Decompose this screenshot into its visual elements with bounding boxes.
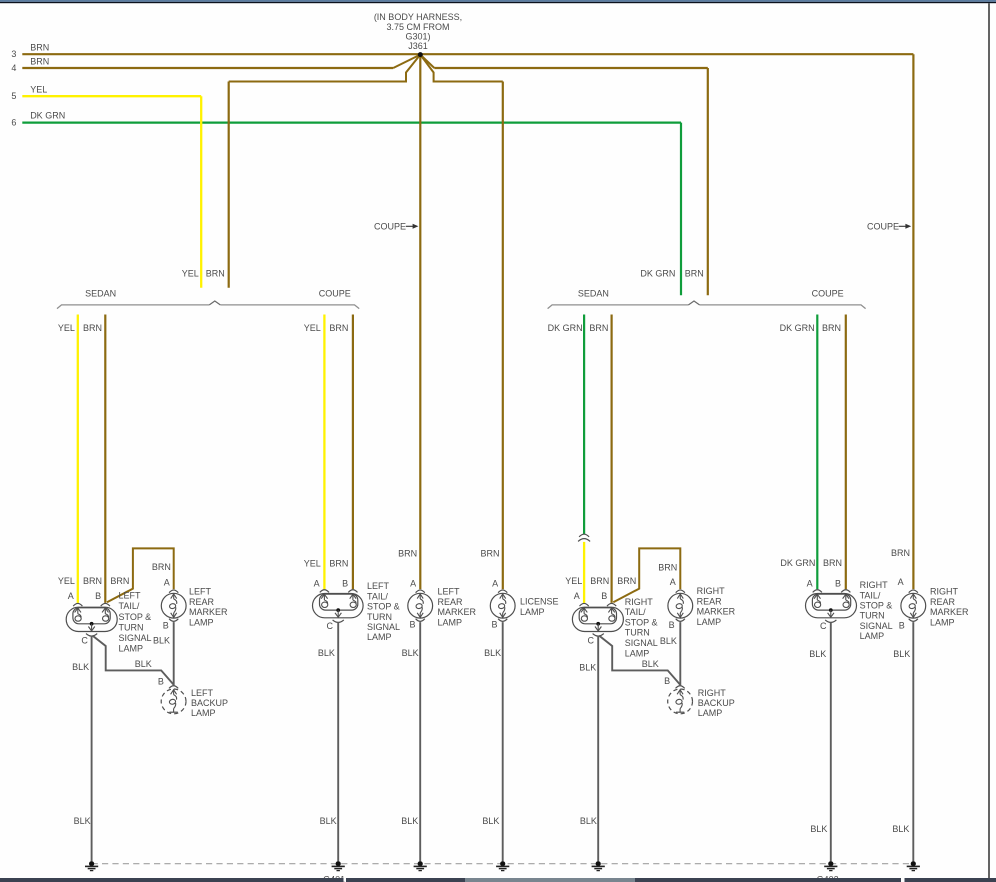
wire BRN circuit 4 diagonal to J361 bbox=[393, 55, 420, 68]
svg-text:BRN: BRN bbox=[30, 57, 49, 67]
svg-text:SIGNAL: SIGNAL bbox=[860, 621, 893, 631]
label BRN at left sedan branch bbox=[110, 576, 129, 586]
svg-text:RIGHT: RIGHT bbox=[697, 586, 726, 596]
svg-text:BLK: BLK bbox=[153, 636, 170, 646]
label YEL left coupe drop bbox=[304, 323, 321, 333]
bulb license lamp bbox=[490, 590, 515, 621]
svg-text:B: B bbox=[491, 620, 497, 630]
label BRN at left coupe marker bbox=[398, 549, 417, 559]
wire BLK right coupe C to ground bbox=[830, 622, 832, 861]
svg-text:BLK: BLK bbox=[401, 816, 418, 826]
wire BRN J361 to right branch bbox=[420, 55, 708, 296]
wire DK GRN right coupe vertical bbox=[816, 315, 818, 590]
label BRN at left coupe lamp bbox=[329, 559, 348, 569]
wire BLK left coupe C to ground bbox=[337, 622, 339, 861]
label BRN left sedan drop bbox=[83, 323, 102, 333]
label YEL left sedan drop bbox=[58, 323, 75, 333]
svg-text:BLK: BLK bbox=[74, 816, 91, 826]
pin number 6 bbox=[11, 118, 16, 128]
svg-text:LEFT: LEFT bbox=[367, 581, 390, 591]
svg-text:LAMP: LAMP bbox=[367, 632, 392, 642]
svg-text:BLK: BLK bbox=[892, 824, 909, 834]
text left coupe tail lamp name bbox=[367, 581, 400, 642]
svg-text:B: B bbox=[664, 676, 670, 686]
svg-text:LAMP: LAMP bbox=[520, 607, 545, 617]
ground right marker bbox=[907, 861, 920, 870]
label BLK right coupe marker bbox=[893, 649, 910, 659]
svg-text:RIGHT: RIGHT bbox=[930, 587, 959, 597]
svg-text:(IN BODY HARNESS,: (IN BODY HARNESS, bbox=[374, 12, 462, 22]
text left coupe marker name bbox=[438, 587, 477, 628]
svg-text:BACKUP: BACKUP bbox=[191, 698, 228, 708]
svg-text:B: B bbox=[601, 591, 607, 601]
wire YEL circuit 5 horizontal bbox=[22, 95, 201, 97]
pin letters right coupe tail/stop/turn lamp bbox=[807, 578, 841, 631]
wire BLK left coupe marker B to ground bbox=[419, 622, 421, 861]
svg-text:TURN: TURN bbox=[119, 622, 144, 632]
svg-text:BRN: BRN bbox=[110, 576, 129, 586]
bulb left coupe rear marker lamp bbox=[408, 590, 433, 621]
ground name G402 bbox=[817, 875, 839, 882]
wire BLK left sedan C to ground bbox=[91, 636, 93, 861]
label BLK license bbox=[484, 648, 501, 658]
wire YEL right sedan vertical bbox=[583, 542, 585, 603]
bulb left backup lamp bbox=[161, 686, 186, 714]
svg-text:YEL: YEL bbox=[58, 576, 75, 586]
text right sedan marker name bbox=[697, 586, 736, 627]
svg-text:SIGNAL: SIGNAL bbox=[367, 622, 400, 632]
label DK GRN right sedan drop bbox=[548, 323, 583, 333]
svg-text:BRN: BRN bbox=[329, 323, 348, 333]
svg-text:COUPE: COUPE bbox=[374, 222, 406, 232]
label BLK bottom left marker bbox=[401, 816, 418, 826]
svg-text:BRN: BRN bbox=[83, 576, 102, 586]
svg-text:LAMP: LAMP bbox=[189, 617, 214, 627]
label YEL above left bracket bbox=[182, 268, 199, 278]
svg-text:MARKER: MARKER bbox=[930, 607, 969, 617]
splice DK GRN to YEL right sedan bbox=[578, 534, 590, 541]
svg-text:DK GRN: DK GRN bbox=[640, 268, 675, 278]
browser top bar bbox=[0, 0, 996, 3]
text right coupe marker name bbox=[930, 587, 969, 628]
svg-text:BLK: BLK bbox=[660, 636, 677, 646]
label BRN at right coupe marker bbox=[891, 548, 910, 558]
wire BRN J361 to left branch bbox=[229, 55, 421, 288]
label YEL at left coupe lamp bbox=[304, 559, 321, 569]
svg-text:YEL: YEL bbox=[30, 84, 47, 94]
label BLK bottom right sedan bbox=[580, 816, 597, 826]
label DK GRN circuit 6 bbox=[30, 111, 65, 121]
label BRN at right coupe lamp bbox=[823, 558, 842, 568]
pin letters right coupe marker bbox=[898, 577, 905, 631]
wire BRN right coupe vertical bbox=[845, 315, 847, 590]
label BLK bottom left sedan bbox=[74, 816, 91, 826]
wire BLK left sedan marker B to backup bbox=[173, 622, 175, 685]
svg-text:A: A bbox=[574, 591, 580, 601]
wire BRN left sedan marker branch bbox=[107, 548, 174, 602]
svg-text:A: A bbox=[670, 577, 676, 587]
ground right sedan bbox=[592, 861, 605, 870]
label BLK right sedan C bbox=[579, 663, 596, 673]
svg-text:RIGHT: RIGHT bbox=[625, 597, 654, 607]
svg-text:B: B bbox=[899, 621, 905, 631]
svg-text:LAMP: LAMP bbox=[930, 617, 955, 627]
ground G401 left sedan bbox=[85, 861, 98, 870]
wire BLK left sedan C branch to backup bbox=[93, 636, 174, 685]
pin letters left sedan marker bbox=[163, 577, 170, 630]
svg-text:SIGNAL: SIGNAL bbox=[625, 638, 658, 648]
svg-text:TURN: TURN bbox=[625, 628, 650, 638]
label BLK left sedan C bbox=[72, 662, 89, 672]
svg-text:TAIL/: TAIL/ bbox=[625, 607, 646, 617]
svg-text:BRN: BRN bbox=[658, 563, 677, 573]
wire BRN J361 to license branch bbox=[420, 55, 503, 590]
label SEDAN right bbox=[578, 289, 609, 299]
svg-text:REAR: REAR bbox=[189, 597, 215, 607]
label YEL at left sedan lamp bbox=[58, 576, 75, 586]
svg-text:C: C bbox=[81, 636, 88, 646]
wire DK GRN right sedan vertical bbox=[583, 315, 585, 535]
svg-text:REAR: REAR bbox=[697, 596, 723, 606]
svg-text:DK GRN: DK GRN bbox=[780, 558, 815, 568]
wire BLK right sedan C to ground bbox=[597, 636, 599, 861]
svg-text:LAMP: LAMP bbox=[191, 708, 216, 718]
svg-text:LEFT: LEFT bbox=[189, 587, 212, 597]
svg-text:5: 5 bbox=[11, 91, 16, 101]
label BRN right coupe drop bbox=[822, 323, 841, 333]
svg-text:B: B bbox=[409, 620, 415, 630]
svg-text:C: C bbox=[327, 621, 334, 631]
pin number 5 bbox=[11, 91, 16, 101]
svg-text:BRN: BRN bbox=[152, 562, 171, 572]
connector right coupe tail/stop/turn lamp bbox=[806, 590, 857, 623]
label BLK left sedan branch bbox=[135, 659, 152, 669]
svg-text:BRN: BRN bbox=[30, 43, 49, 53]
connector left sedan tail/stop/turn lamp bbox=[66, 603, 117, 636]
wire BRN circuit 3 horizontal bbox=[22, 53, 913, 55]
pin letters left coupe tail/stop/turn lamp bbox=[314, 578, 349, 631]
svg-text:STOP &: STOP & bbox=[119, 612, 152, 622]
svg-text:MARKER: MARKER bbox=[189, 607, 228, 617]
right split bracket bbox=[548, 301, 866, 309]
ground bus dashed line bbox=[92, 863, 914, 865]
wire BRN right sedan marker branch bbox=[613, 548, 680, 602]
pin letters left sedan tail/stop/turn lamp bbox=[68, 591, 101, 646]
label BLK bottom license bbox=[482, 816, 499, 826]
ground G402 right coupe bbox=[824, 861, 837, 870]
svg-text:A: A bbox=[492, 578, 498, 588]
svg-text:BRN: BRN bbox=[398, 549, 417, 559]
wire BLK license B to ground bbox=[502, 622, 504, 861]
wire BRN left sedan vertical bbox=[104, 315, 106, 603]
svg-text:DK GRN: DK GRN bbox=[548, 323, 583, 333]
svg-text:LAMP: LAMP bbox=[625, 648, 650, 658]
ground license bbox=[496, 861, 509, 870]
pin number 3 bbox=[11, 49, 16, 59]
svg-text:DK GRN: DK GRN bbox=[30, 111, 65, 121]
svg-text:RIGHT: RIGHT bbox=[698, 688, 727, 698]
label BRN above right bracket bbox=[685, 268, 704, 278]
svg-text:B: B bbox=[158, 677, 164, 687]
wire YEL left sedan vertical bbox=[77, 315, 79, 603]
connector left coupe tail/stop/turn lamp bbox=[313, 590, 364, 623]
svg-text:REAR: REAR bbox=[438, 597, 464, 607]
svg-text:SIGNAL: SIGNAL bbox=[119, 633, 152, 643]
svg-text:TURN: TURN bbox=[860, 611, 885, 621]
text right coupe tail lamp name bbox=[860, 580, 893, 641]
bulb right backup lamp bbox=[668, 686, 693, 714]
label BLK right sedan branch bbox=[642, 659, 659, 669]
wire BRN J361 straight down to marker bbox=[419, 55, 421, 590]
wire BRN left coupe vertical bbox=[352, 315, 354, 590]
pin letters right sedan marker bbox=[669, 577, 676, 630]
label BLK left sedan marker bbox=[153, 636, 170, 646]
wire DK GRN circuit 6 horizontal bbox=[22, 121, 681, 123]
svg-text:BRN: BRN bbox=[206, 268, 225, 278]
svg-text:BRN: BRN bbox=[589, 323, 608, 333]
wire BLK right sedan marker B to backup bbox=[679, 622, 681, 685]
svg-text:BACKUP: BACKUP bbox=[698, 698, 735, 708]
svg-text:LEFT: LEFT bbox=[119, 591, 142, 601]
label YEL circuit 5 bbox=[30, 84, 47, 94]
label DK GRN right coupe drop bbox=[780, 323, 815, 333]
svg-text:RIGHT: RIGHT bbox=[860, 580, 889, 590]
svg-text:BRN: BRN bbox=[891, 548, 910, 558]
text left sedan marker name bbox=[189, 587, 228, 628]
svg-text:SEDAN: SEDAN bbox=[85, 289, 116, 299]
svg-text:BRN: BRN bbox=[480, 549, 499, 559]
label DK GRN at right coupe lamp bbox=[780, 558, 815, 568]
svg-text:MARKER: MARKER bbox=[438, 607, 477, 617]
svg-text:BLK: BLK bbox=[482, 816, 499, 826]
left COUPE arrow bbox=[374, 222, 418, 232]
label BLK bottom right marker bbox=[892, 824, 909, 834]
pin letters right sedan tail/stop/turn lamp bbox=[574, 591, 608, 646]
svg-text:3.75 CM FROM: 3.75 CM FROM bbox=[386, 22, 449, 32]
svg-text:BRN: BRN bbox=[823, 558, 842, 568]
svg-text:STOP &: STOP & bbox=[625, 617, 658, 627]
svg-text:YEL: YEL bbox=[58, 323, 75, 333]
wire BRN circuit 4 horizontal bbox=[22, 67, 393, 69]
text left backup name bbox=[191, 688, 228, 718]
svg-text:BLK: BLK bbox=[810, 824, 827, 834]
label BRN circuit 3 bbox=[30, 43, 49, 53]
svg-text:B: B bbox=[669, 620, 675, 630]
pin letters license lamp bbox=[491, 578, 498, 629]
svg-text:YEL: YEL bbox=[304, 559, 321, 569]
wire YEL left coupe vertical bbox=[323, 315, 325, 590]
right frame border bbox=[988, 3, 990, 878]
wire BLK right coupe marker B to ground bbox=[912, 622, 914, 861]
bulb right coupe rear marker lamp bbox=[901, 590, 926, 621]
svg-text:BRN: BRN bbox=[685, 268, 704, 278]
svg-text:BRN: BRN bbox=[83, 323, 102, 333]
svg-text:B: B bbox=[835, 578, 841, 588]
svg-text:3: 3 bbox=[11, 49, 16, 59]
connector right sedan tail/stop/turn lamp bbox=[572, 603, 623, 636]
svg-text:BLK: BLK bbox=[402, 648, 419, 658]
svg-text:BLK: BLK bbox=[580, 816, 597, 826]
pin letter left backup bbox=[158, 677, 164, 687]
junction J361 dot bbox=[418, 52, 423, 57]
svg-text:COUPE: COUPE bbox=[319, 289, 351, 299]
svg-text:B: B bbox=[95, 591, 101, 601]
svg-text:C: C bbox=[820, 621, 827, 631]
svg-text:STOP &: STOP & bbox=[367, 602, 400, 612]
left split bracket bbox=[57, 301, 359, 309]
svg-text:A: A bbox=[164, 577, 170, 587]
svg-text:6: 6 bbox=[11, 118, 16, 128]
text right backup name bbox=[698, 688, 735, 718]
label BLK right sedan marker bbox=[660, 636, 677, 646]
junction J361 label text bbox=[374, 12, 462, 51]
label BRN above left bracket bbox=[206, 268, 225, 278]
label BRN at license lamp bbox=[480, 549, 499, 559]
pin letter right backup bbox=[664, 676, 670, 686]
svg-text:B: B bbox=[342, 578, 348, 588]
pin number 4 bbox=[11, 63, 16, 73]
label BRN right sedan drop bbox=[589, 323, 608, 333]
svg-text:BLK: BLK bbox=[579, 663, 596, 673]
svg-text:A: A bbox=[314, 578, 320, 588]
svg-text:LEFT: LEFT bbox=[438, 587, 461, 597]
label BRN at left sedan lamp bbox=[83, 576, 102, 586]
text right sedan tail lamp name bbox=[625, 597, 658, 659]
svg-text:BLK: BLK bbox=[318, 648, 335, 658]
svg-text:B: B bbox=[163, 620, 169, 630]
label BRN at right sedan branch bbox=[617, 576, 636, 586]
wire BRN circuit 3 vertical right bbox=[912, 54, 914, 589]
bulb left sedan rear marker lamp bbox=[161, 590, 186, 621]
svg-text:A: A bbox=[898, 577, 904, 587]
ground left coupe bbox=[332, 861, 345, 870]
svg-text:LAMP: LAMP bbox=[860, 631, 885, 641]
svg-text:COUPE: COUPE bbox=[812, 289, 844, 299]
svg-text:BRN: BRN bbox=[590, 576, 609, 586]
svg-text:J361: J361 bbox=[408, 41, 428, 51]
label DK GRN above right bracket bbox=[640, 268, 675, 278]
svg-text:LAMP: LAMP bbox=[698, 708, 723, 718]
svg-text:STOP &: STOP & bbox=[860, 601, 893, 611]
svg-text:A: A bbox=[68, 591, 74, 601]
label SEDAN left bbox=[85, 289, 116, 299]
label YEL at right sedan lamp bbox=[565, 576, 582, 586]
wire YEL circuit 5 vertical bbox=[200, 96, 202, 288]
svg-text:C: C bbox=[588, 636, 595, 646]
ground left marker bbox=[414, 861, 427, 870]
svg-text:TAIL/: TAIL/ bbox=[860, 590, 881, 600]
svg-text:DK GRN: DK GRN bbox=[780, 323, 815, 333]
pin letters left coupe marker bbox=[409, 578, 416, 629]
wire BLK right sedan C branch to backup bbox=[599, 636, 680, 685]
svg-text:A: A bbox=[410, 578, 416, 588]
svg-text:LEFT: LEFT bbox=[191, 688, 214, 698]
label BLK bottom right coupe bbox=[810, 824, 827, 834]
wire BRN right sedan vertical bbox=[610, 315, 612, 603]
right COUPE arrow bbox=[867, 222, 911, 232]
svg-text:4: 4 bbox=[11, 63, 16, 73]
svg-text:BLK: BLK bbox=[72, 662, 89, 672]
svg-text:LAMP: LAMP bbox=[438, 617, 463, 627]
svg-text:BLK: BLK bbox=[893, 649, 910, 659]
svg-text:BLK: BLK bbox=[642, 659, 659, 669]
svg-text:BLK: BLK bbox=[809, 649, 826, 659]
text left sedan tail lamp name bbox=[119, 591, 152, 654]
bottom status bar bbox=[0, 878, 996, 882]
svg-text:YEL: YEL bbox=[182, 268, 199, 278]
svg-text:MARKER: MARKER bbox=[697, 607, 736, 617]
svg-text:LAMP: LAMP bbox=[119, 644, 144, 654]
label BLK left coupe marker bbox=[402, 648, 419, 658]
label BRN circuit 4 bbox=[30, 57, 49, 67]
label BRN at right sedan lamp bbox=[590, 576, 609, 586]
wire DK GRN circuit 6 vertical bbox=[680, 123, 682, 296]
svg-text:REAR: REAR bbox=[930, 597, 956, 607]
bulb right sedan rear marker lamp bbox=[668, 590, 693, 621]
text license lamp name bbox=[520, 597, 559, 618]
label BRN at right sedan marker bbox=[658, 563, 677, 573]
svg-text:COUPE: COUPE bbox=[867, 222, 899, 232]
svg-text:BRN: BRN bbox=[822, 323, 841, 333]
svg-text:BRN: BRN bbox=[617, 576, 636, 586]
svg-text:BLK: BLK bbox=[135, 659, 152, 669]
svg-text:LICENSE: LICENSE bbox=[520, 597, 559, 607]
ground name G401 bbox=[323, 875, 345, 882]
label BLK bottom left coupe bbox=[320, 816, 337, 826]
label COUPE left bbox=[319, 289, 351, 299]
svg-text:LAMP: LAMP bbox=[697, 617, 722, 627]
label COUPE right bbox=[812, 289, 844, 299]
svg-text:SEDAN: SEDAN bbox=[578, 289, 609, 299]
svg-text:TAIL/: TAIL/ bbox=[367, 591, 388, 601]
label BLK left coupe C bbox=[318, 648, 335, 658]
svg-text:A: A bbox=[807, 578, 813, 588]
label BRN at left sedan marker bbox=[152, 562, 171, 572]
label BLK right coupe C bbox=[809, 649, 826, 659]
svg-text:TURN: TURN bbox=[367, 612, 392, 622]
svg-text:YEL: YEL bbox=[565, 576, 582, 586]
svg-text:BLK: BLK bbox=[320, 816, 337, 826]
label BRN left coupe drop bbox=[329, 323, 348, 333]
svg-text:BRN: BRN bbox=[329, 559, 348, 569]
svg-text:BLK: BLK bbox=[484, 648, 501, 658]
svg-text:YEL: YEL bbox=[304, 323, 321, 333]
svg-text:TAIL/: TAIL/ bbox=[119, 601, 140, 611]
